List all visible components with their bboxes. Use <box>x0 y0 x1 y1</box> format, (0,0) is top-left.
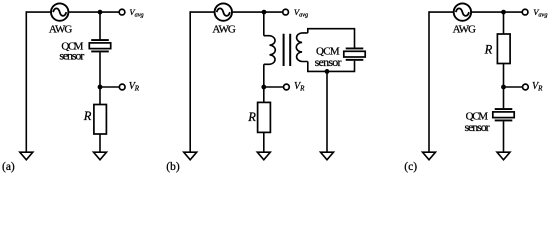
svg-text:VR: VR <box>532 81 543 93</box>
wire: (a) node down to QCM sensor <box>99 12 101 40</box>
wire: (b) secondary node to ground <box>326 71 328 152</box>
ground: (b) resistor ground <box>257 152 270 160</box>
svg-text:sensor: sensor <box>315 55 342 69</box>
resistor R (b) <box>258 102 271 132</box>
wire: (a) VR node down to resistor <box>99 87 101 105</box>
svg-text:R: R <box>83 109 92 123</box>
wire: (b) VR node down to resistor <box>263 87 265 102</box>
wire: (c) node down to resistor <box>503 12 505 34</box>
svg-text:AWG: AWG <box>49 24 72 36</box>
node junction dot (c) VR <box>501 85 506 90</box>
resistor R (a) <box>94 105 107 135</box>
wire: (c) VR stub to terminal <box>504 86 523 88</box>
svg-text:AWG: AWG <box>453 24 476 36</box>
node junction dot (b) Vavg <box>262 10 267 15</box>
QCM sensor X1 (crystal) <box>89 39 110 52</box>
wire: (b) AWG to Vavg node <box>232 11 283 13</box>
wire: (b) primary bottom to VR node <box>263 64 265 87</box>
AWG source U3 <box>454 3 471 20</box>
wire: (a) VR stub to terminal <box>100 86 119 88</box>
svg-text:(b): (b) <box>166 161 180 173</box>
node junction dot (a) VR <box>98 85 103 90</box>
node junction dot (b) secondary ground node <box>325 69 330 74</box>
svg-text:VR: VR <box>129 81 140 93</box>
ground: (b) secondary ground <box>321 152 334 160</box>
node junction dot (c) Vavg <box>501 10 506 15</box>
ground: (b) left rail ground <box>184 152 197 160</box>
terminal Vavg (c) <box>522 9 528 15</box>
terminal VR (c) <box>523 84 529 90</box>
transformer T1 primary winding <box>264 36 276 65</box>
terminal Vavg (b) <box>283 9 289 15</box>
wire: (b) top-left horizontal from corner to AWG <box>190 11 214 13</box>
wire: (b) left vertical rail <box>189 11 191 152</box>
wire: (c) resistor to VR node <box>503 64 505 88</box>
ground: (c) left rail ground <box>423 152 436 160</box>
wire: (a) AWG to Vavg node <box>68 11 119 13</box>
svg-text:R: R <box>484 43 493 57</box>
ground: (a) left rail ground <box>20 152 33 160</box>
wire: (b) secondary loop bottom <box>308 61 355 72</box>
wire: (c) VR node down to QCM sensor <box>503 87 505 108</box>
wire: (a) top-left horizontal from corner to AWG <box>26 11 51 13</box>
wire: (a) resistor to ground <box>99 134 101 153</box>
wire: (b) node down to transformer primary <box>263 12 265 36</box>
wire: (c) left vertical rail <box>428 11 430 152</box>
AWG source U2 <box>215 3 232 20</box>
QCM sensor X2 (crystal) <box>344 48 365 61</box>
ground: (a) resistor ground <box>94 152 107 160</box>
wire: (a) left vertical rail <box>25 11 27 152</box>
svg-text:AWG: AWG <box>212 24 235 36</box>
AWG source U1 <box>51 3 68 20</box>
transformer T1 secondary winding <box>296 33 308 62</box>
wire: (c) QCM to ground <box>503 121 505 152</box>
wire: (a) QCM to VR node <box>99 52 101 87</box>
svg-text:Vavg: Vavg <box>294 7 308 19</box>
svg-text:VR: VR <box>294 81 305 93</box>
svg-text:(c): (c) <box>404 161 417 173</box>
wire: (c) top-left horizontal from corner to AWG <box>429 11 454 13</box>
transformer T1 core <box>284 34 291 66</box>
QCM sensor X3 (crystal) <box>493 108 514 121</box>
ground: (c) QCM ground <box>497 152 510 160</box>
node junction dot (a) Vavg <box>98 10 103 15</box>
svg-text:sensor: sensor <box>465 120 490 134</box>
terminal VR (b) <box>284 84 290 90</box>
svg-text:Vavg: Vavg <box>533 7 547 19</box>
terminal VR (a) <box>119 84 125 90</box>
wire: (b) resistor to ground <box>263 132 265 152</box>
wire: (b) VR stub to terminal <box>264 86 284 88</box>
wire: (c) AWG to Vavg node <box>471 11 522 13</box>
terminal Vavg (a) <box>119 9 125 15</box>
wire: (b) secondary loop top <box>308 29 355 48</box>
svg-text:Vavg: Vavg <box>129 7 143 19</box>
svg-text:R: R <box>247 110 256 124</box>
svg-text:(a): (a) <box>2 161 15 173</box>
node junction dot (b) VR <box>261 85 266 90</box>
resistor R (c) <box>497 34 510 64</box>
svg-text:sensor: sensor <box>59 49 84 63</box>
